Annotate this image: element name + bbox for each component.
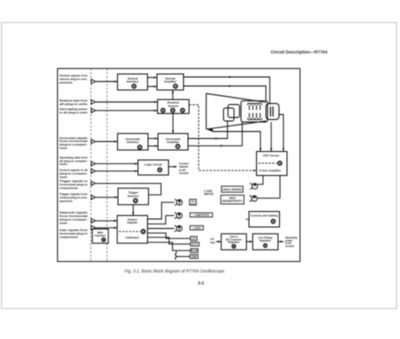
open arrowheads at plug-in boundary <box>91 79 95 230</box>
wire: Readout to Z-axis amplifier <box>189 105 253 171</box>
diagram frame <box>58 69 301 262</box>
svg-text:Readout data from: Readout data from <box>60 99 89 103</box>
wire: readout data to RO <box>95 101 157 103</box>
diagram ref symbol OS <box>141 229 145 233</box>
svg-text:Trigger signals from: Trigger signals from <box>60 192 89 196</box>
svg-text:4 V: 4 V <box>192 237 196 240</box>
electron gun <box>224 105 240 122</box>
svg-text:Selector: Selector <box>127 194 139 198</box>
block: Vertical Amplifier <box>157 74 184 90</box>
svg-text:Circuit Description—R7704: Circuit Description—R7704 <box>271 50 328 55</box>
CRT base cap <box>266 104 279 120</box>
wire: logic output to all circuits <box>169 166 178 168</box>
label: control signals <box>60 168 88 179</box>
wire: VA outputs to CRT vertical plates <box>184 77 270 105</box>
vertical deflection plates <box>248 103 262 110</box>
wire: horizontal signals to HI <box>95 141 117 143</box>
horizontal deflection plates <box>248 113 262 120</box>
svg-text:System: System <box>168 104 179 108</box>
wire: converter to low voltage regulator <box>246 241 252 243</box>
label: operating data <box>60 155 89 166</box>
svg-text:Z-Axis Amplifier: Z-Axis Amplifier <box>259 169 282 173</box>
wire: Output Signals to +GATE connector <box>148 228 175 230</box>
jack label: GND <box>190 255 198 259</box>
wire: TS down to Output Signals <box>132 205 134 216</box>
svg-text:Regulator: Regulator <box>228 241 240 244</box>
wire: CRT neck to CRT circuit <box>270 122 272 152</box>
svg-text:Interface: Interface <box>127 140 139 144</box>
connector: z-axis jack 1 <box>250 183 258 189</box>
svg-text:GND: GND <box>191 256 197 259</box>
wire: VI to VA (two lines) <box>148 78 158 87</box>
wire: calibrator taps <box>148 233 191 251</box>
jack label: 40 mV <box>191 249 199 253</box>
wire: Output Signals to SIG OUT connector <box>148 202 175 219</box>
block: Vertical Interface <box>118 74 148 90</box>
block: Low Voltage Regulator <box>253 234 278 250</box>
wire: Readout down to Horizontal Amplifier <box>172 114 174 134</box>
label: trigger signals from vertical <box>60 192 89 203</box>
block: Logic Circuit <box>138 160 169 175</box>
wire: AC line to converter <box>216 241 221 243</box>
svg-text:Interface: Interface <box>126 80 138 84</box>
diagram ref symbol VI <box>132 84 136 88</box>
wire: HI to HA (two lines) <box>148 139 158 147</box>
svg-text:Logic Circuit: Logic Circuit <box>144 162 162 166</box>
wire: operating power out <box>278 241 284 243</box>
wire: interrogating pulses to RO <box>95 110 157 112</box>
block: Horizontal Interface <box>118 134 149 151</box>
connector: sawtooth jack <box>174 213 182 219</box>
connector: gate jack <box>174 225 182 231</box>
diagram ref symbol HI <box>138 145 142 149</box>
wire: Output Signals to +SAWTOOTH connector <box>148 216 175 224</box>
block: Horizontal Amplifier <box>158 134 188 151</box>
diagram ref symbol TS <box>133 198 137 202</box>
svg-text:to all plug-in units: to all plug-in units <box>60 111 89 115</box>
svg-text:Calibrator: Calibrator <box>125 235 140 239</box>
svg-text:horizontal plug-in: horizontal plug-in <box>60 232 88 236</box>
svg-text:SENSITIVITY: SENSITIVITY <box>222 199 243 203</box>
jack label: 4 V <box>191 237 198 241</box>
svg-text:+ SAWTOOTH: + SAWTOOTH <box>193 214 209 217</box>
wire: vertical signals to VI <box>95 81 117 83</box>
label: Z-AXIS INPUTS <box>204 189 214 196</box>
svg-text:compartments: compartments <box>60 186 79 190</box>
svg-text:Vertical signals from: Vertical signals from <box>60 74 89 78</box>
svg-text:plug-in compart-: plug-in compart- <box>60 171 88 175</box>
box: HIGH SPEED z-input <box>222 186 244 192</box>
wire: sawtooth to Output Signals <box>95 220 117 222</box>
block: Output Signals / Calibrator <box>117 216 147 244</box>
svg-text:INPUTS: INPUTS <box>204 192 214 196</box>
block: Readout System <box>158 100 190 114</box>
block: CRT Circuit / Z-Axis Amplifier <box>257 152 288 176</box>
wire: Readout to Vertical Amplifier (up arrow) <box>172 90 174 100</box>
connector: z-axis jack 2 <box>250 195 258 201</box>
svg-text:line: line <box>211 240 216 244</box>
svg-text:Controls and Cabling: Controls and Cabling <box>251 213 279 217</box>
CRT neck tube <box>241 101 268 122</box>
wire: z jack2 to Z-axis amp <box>257 176 280 199</box>
svg-text:Interrogating pulses: Interrogating pulses <box>60 107 89 111</box>
wire: stub into controls <box>246 218 249 220</box>
diagram ref symbol CC <box>271 219 275 223</box>
wire: gate to Output Signals <box>95 227 117 229</box>
svg-text:from horizontal: from horizontal <box>60 139 88 143</box>
wire: operating data to Logic <box>95 163 138 165</box>
diagram ref symbol CRT <box>278 161 282 165</box>
block: Main Interface <box>92 229 108 243</box>
wire: CRT base to CRT circuit <box>279 115 284 152</box>
svg-text:plug-in compart-: plug-in compart- <box>60 143 88 147</box>
label: AC line <box>211 237 216 244</box>
dashed main interface line <box>106 69 108 262</box>
svg-text:3-2: 3-2 <box>198 280 205 285</box>
diagram ref symbol HA <box>176 144 180 148</box>
label: interrogating pulses <box>60 107 89 114</box>
svg-text:0.4 V: 0.4 V <box>192 243 198 246</box>
svg-text:Gate signals from: Gate signals from <box>60 228 89 232</box>
svg-text:Sawtooth signals: Sawtooth signals <box>60 211 89 215</box>
svg-text:Trigger signals to: Trigger signals to <box>60 179 88 183</box>
box: HIGH SENSITIVITY z-input <box>221 195 244 204</box>
label: control signals to all circuits <box>179 161 189 175</box>
connector: SIG OUT jack <box>175 199 183 205</box>
svg-text:circuits: circuits <box>179 171 189 175</box>
svg-text:horizontal plug-in: horizontal plug-in <box>60 183 88 187</box>
wire: trigger from vertical to TS <box>95 196 118 198</box>
block: Controls and Cabling <box>249 212 280 228</box>
label: horizontal signals <box>60 136 89 150</box>
wire: HA outputs to CRT horizontal plates <box>188 122 242 146</box>
diagram ref symbol LDC <box>232 244 236 248</box>
svg-text:from horizontal: from horizontal <box>60 214 88 218</box>
jack label: + SAWTOOTH <box>190 213 213 217</box>
diagram ref symbol LVR <box>263 244 267 248</box>
svg-text:ments: ments <box>60 221 68 225</box>
svg-text:Operating data from: Operating data from <box>60 155 89 159</box>
svg-text:Control signals to all: Control signals to all <box>60 168 88 172</box>
svg-text:Amplifier: Amplifier <box>164 80 177 84</box>
svg-text:vertical plug-in com-: vertical plug-in com- <box>60 195 88 199</box>
svg-text:CRT Circuit: CRT Circuit <box>263 154 279 158</box>
svg-text:ments: ments <box>60 175 68 179</box>
label: vertical signals <box>60 74 89 85</box>
wire: z jack1 to Z-axis amp <box>258 176 263 185</box>
label: sawtooth signals <box>60 211 89 225</box>
diagram ref symbol MI <box>102 238 106 242</box>
diagram ref symbols in Readout <box>161 108 185 112</box>
diagram ref symbol Logic <box>158 168 162 172</box>
svg-text:Interface: Interface <box>95 234 106 238</box>
block: Trigger Selector <box>118 188 149 205</box>
svg-text:circuits: circuits <box>285 245 295 248</box>
svg-text:+ GATE: + GATE <box>192 227 201 230</box>
svg-text:40 mV: 40 mV <box>191 250 198 253</box>
label: operating power to all circuits <box>285 237 297 248</box>
CRT funnel <box>206 94 266 130</box>
CRT base pins <box>271 107 274 117</box>
diagram ref symbol VA <box>173 84 177 88</box>
svg-text:all plug-in compart-: all plug-in compart- <box>60 159 88 163</box>
svg-text:Fig. 3-1. Basic block diagram: Fig. 3-1. Basic block diagram of R7704 O… <box>125 269 226 274</box>
svg-text:ments: ments <box>60 162 68 166</box>
label: trigger signals to horizontal <box>60 179 88 190</box>
svg-text:all plug-in units: all plug-in units <box>60 102 89 106</box>
svg-text:Signals: Signals <box>127 221 138 225</box>
jack label: + GATE <box>190 226 203 230</box>
svg-text:partments: partments <box>60 199 73 203</box>
svg-text:Amplifier: Amplifier <box>167 140 180 144</box>
svg-text:OUT: OUT <box>191 203 196 205</box>
wire: CRT circuit to CRT funnel (arrow) <box>207 129 261 152</box>
wire: control signals to Logic <box>95 170 138 172</box>
dashed plug-in boundary line (left) <box>90 69 92 262</box>
jack label: SIG OUT <box>190 199 197 205</box>
svg-text:various plug-in com-: various plug-in com- <box>60 77 88 81</box>
svg-text:HIGH SPEED: HIGH SPEED <box>223 187 242 191</box>
label: gate signals <box>60 228 89 239</box>
block: Line to DC Converter Regulator <box>221 234 246 250</box>
jack label: 0.4 V <box>191 242 200 246</box>
svg-text:Horizontal signals: Horizontal signals <box>60 136 89 140</box>
svg-text:compartments: compartments <box>60 235 79 239</box>
svg-text:Regulator: Regulator <box>259 239 271 242</box>
label: readout data <box>60 99 89 106</box>
svg-text:plug-in compart-: plug-in compart- <box>60 217 88 221</box>
svg-text:ments: ments <box>60 146 68 150</box>
wire: trigger-to-horizontal loop from Trigger Selector <box>95 183 161 194</box>
svg-text:partments: partments <box>60 80 73 84</box>
ground squiggle for GND jack <box>175 252 190 260</box>
